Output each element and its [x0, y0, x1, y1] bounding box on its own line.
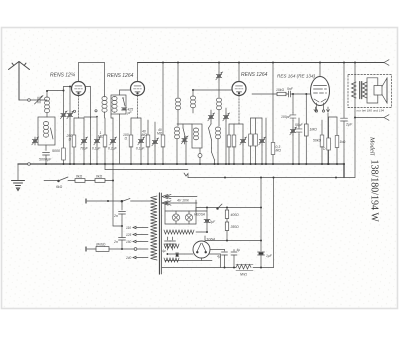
AVC line upper [104, 164, 106, 170]
trimmer 70pF [83, 118, 85, 137]
coupling network wire [252, 93, 277, 95]
resistor 400ohm [226, 208, 228, 211]
wire V1 cathode [78, 96, 80, 119]
wire V1 screen side [86, 87, 91, 119]
resistor 100ohm x131 [130, 118, 132, 136]
svg-text:70pF: 70pF [80, 147, 89, 151]
pickup switch [58, 177, 68, 181]
output tube top cap wire [319, 63, 321, 77]
svg-text:RES 164 (RE 134): RES 164 (RE 134) [277, 74, 316, 79]
coupling cap 5nF [286, 91, 293, 97]
resistor column x61 [62, 148, 66, 160]
svg-text:2μF: 2μF [345, 123, 353, 127]
svg-text:2n: 2n [113, 240, 118, 244]
band coil L2 [43, 122, 48, 138]
detector resistor x255.5 [255, 118, 257, 134]
wire [104, 113, 106, 119]
cap x262 [261, 118, 263, 137]
cap x155 [154, 122, 156, 138]
speaker return vertical [354, 63, 356, 178]
bias switch [217, 204, 222, 209]
svg-text:4μ: 4μ [162, 249, 166, 253]
grid trimmer V3 [216, 72, 223, 80]
antenna [9, 62, 30, 101]
wire to output grid [293, 93, 311, 95]
cap 2uF [343, 63, 345, 119]
svg-text:0kΩ: 0kΩ [96, 175, 103, 179]
svg-text:4V 10%: 4V 10% [177, 199, 189, 203]
V3 tube RENS1264 [232, 82, 246, 96]
svg-text:RENS 1264: RENS 1264 [107, 73, 134, 79]
svg-text:138/180/194 W: 138/180/194 W [369, 160, 380, 223]
band coil box [192, 124, 202, 148]
resistor 1M vertical [305, 94, 307, 124]
tuning gang C1 [60, 111, 67, 119]
wire drop padder [69, 87, 71, 112]
transformer core [359, 82, 361, 99]
V2 tube RENS1264 [131, 82, 145, 96]
svg-text:Modell: Modell [369, 136, 376, 156]
svg-text:125: 125 [126, 233, 132, 237]
line cap lower [119, 238, 126, 241]
svg-text:1μF: 1μF [266, 254, 273, 258]
speaker cone [382, 78, 387, 103]
bias return wire [205, 240, 261, 242]
bias resistor leg [329, 116, 337, 118]
transformer core lines [159, 193, 161, 274]
resistor 10k horizontal second [95, 179, 105, 183]
power transformer primary winding [151, 196, 158, 260]
wire V2 plate top to bus [137, 63, 139, 82]
speaker terminal arrow lower [384, 115, 389, 121]
wire V2 grid [120, 90, 131, 95]
svg-text:240: 240 [125, 256, 132, 260]
resistor 10k horizontal [75, 179, 85, 183]
detector load resistor x250.5 [250, 118, 252, 134]
bias network wire [196, 207, 261, 209]
wire box to cap [45, 145, 47, 151]
ground lead [17, 164, 19, 180]
band coil inside box [112, 97, 117, 113]
wire [30, 99, 35, 101]
svg-text:0,1μF: 0,1μF [136, 147, 145, 151]
resistor 0,3M x273 [272, 63, 274, 143]
chassis bus [18, 164, 344, 178]
wire coil top to grid line [46, 91, 48, 97]
HT bottom rail [162, 267, 236, 269]
antenna coil L1 [44, 97, 49, 113]
dial lamp 2 [185, 214, 192, 221]
wire V1 grid [64, 86, 72, 88]
wire antenna lead [19, 99, 28, 101]
ground symbol [12, 181, 25, 191]
svg-text:0kΩ: 0kΩ [76, 175, 83, 179]
filter cap 4uF a [224, 250, 226, 252]
IF coil primary [102, 97, 107, 113]
model label vertical [369, 136, 380, 222]
svg-text:MΩ: MΩ [142, 133, 148, 137]
svg-text:110: 110 [126, 226, 131, 230]
resistor 50k x322 [321, 120, 323, 136]
screen feed vertical x163 [162, 63, 164, 136]
top HT bus [138, 62, 385, 64]
IF2 band coil [174, 127, 179, 139]
cathode cap 5000pF [43, 153, 50, 165]
grid terminal circle [95, 110, 97, 112]
secondary 4V winding [162, 194, 197, 198]
cap x243 [242, 124, 244, 137]
AVC jog [184, 173, 188, 178]
cap 0,1uF x97 [96, 117, 98, 137]
IF2 switch [183, 128, 186, 140]
svg-text:Ω: Ω [69, 138, 72, 142]
HT feed vertical [273, 178, 275, 268]
mains lead 2 [87, 248, 96, 250]
cathode resistor leg [328, 117, 330, 138]
V1 tube RENS1214 [72, 82, 86, 96]
band switch box [38, 117, 55, 145]
IF transformer 2 primary coil [177, 63, 179, 98]
cap x141 [140, 118, 142, 137]
smoothing cap 1uF [260, 178, 262, 252]
padder trimmer [67, 111, 74, 119]
svg-text:MΩ: MΩ [98, 135, 104, 139]
output transformer secondary winding [363, 82, 368, 98]
svg-text:50kΩ: 50kΩ [313, 139, 321, 143]
wire [73, 147, 75, 164]
rectifier output wire [210, 249, 225, 251]
dial lamp 1 [172, 214, 179, 221]
resistor x234 [233, 124, 235, 136]
resistor 350ohm [225, 222, 228, 231]
trimmer x293 [290, 127, 297, 135]
resistor 0,4M x148 [147, 120, 149, 136]
fuse resistor [96, 247, 109, 252]
wave trap trimmer [32, 137, 39, 145]
speaker loop wires [367, 78, 378, 86]
grid wire to V1 [47, 90, 64, 92]
grid leak vertical x293 [292, 94, 294, 113]
svg-text:400Ω: 400Ω [231, 213, 240, 217]
svg-text:5000: 5000 [52, 149, 60, 153]
resistor 1M x105 [104, 95, 106, 97]
V2 grid box [111, 95, 126, 114]
wire V2 cathode [137, 96, 139, 119]
svg-text:RENS 1264: RENS 1264 [241, 72, 268, 78]
pickup line [44, 180, 58, 182]
svg-text:HEDSA: HEDSA [194, 213, 205, 217]
line cap upper [121, 201, 123, 210]
svg-text:150: 150 [126, 240, 132, 244]
rectifier tube 1064 [193, 241, 210, 258]
heater winding 4V output [164, 230, 194, 234]
IF trimmer [181, 136, 188, 144]
svg-text:4μ: 4μ [237, 248, 241, 252]
cap at winding [176, 253, 179, 257]
cap 425pF [122, 108, 127, 110]
svg-text:0,1μF: 0,1μF [108, 147, 118, 151]
antenna series trimmer C [35, 96, 48, 105]
wire V3 cathode [238, 96, 240, 125]
svg-text:2n: 2n [113, 214, 118, 218]
svg-text:1kΩ: 1kΩ [340, 140, 346, 144]
output tube RES164 [311, 77, 330, 113]
svg-text:1MΩ: 1MΩ [310, 128, 318, 132]
filter cap 4uF b [233, 250, 235, 252]
switch x206 [209, 128, 212, 140]
screen wire column x91 [90, 117, 92, 164]
svg-text:(Wdst): (Wdst) [96, 243, 105, 247]
coil x193 [190, 96, 195, 108]
svg-text:5000pF: 5000pF [39, 158, 52, 162]
variable core circle [198, 154, 202, 158]
lamp cap [206, 208, 208, 220]
wire x266 [265, 118, 267, 164]
heater pin arrows [314, 107, 317, 112]
wire coil to band box [46, 113, 48, 117]
earth terminal [28, 163, 31, 166]
HT winding [164, 258, 179, 262]
svg-text:6kΩ: 6kΩ [56, 185, 63, 189]
trimmer x211 [210, 110, 212, 113]
grid resistor 10k horizontal [277, 92, 286, 95]
HT terminal arrow [384, 60, 389, 66]
tap selector circle [134, 248, 137, 251]
box bottom leads [111, 114, 113, 118]
cap 0,1uF x113 [112, 118, 114, 137]
Junction dots [45, 163, 47, 165]
svg-text:RENS 12¼: RENS 12¼ [50, 73, 75, 79]
speaker voice coil [374, 86, 382, 96]
grid line V3 [193, 89, 232, 91]
cathode network top link [74, 117, 84, 119]
svg-text:NW1: NW1 [240, 273, 247, 277]
wire drop tuning C1 [63, 87, 65, 112]
resistor 250ohm [72, 135, 76, 147]
svg-text:10kΩ: 10kΩ [276, 88, 284, 92]
switch in box [123, 98, 125, 106]
svg-text:100pF: 100pF [281, 115, 292, 119]
rectifier wires [169, 253, 193, 255]
mains switch [122, 199, 131, 202]
svg-text:Ω: Ω [125, 137, 128, 141]
field resistor NW1 [236, 265, 251, 270]
wire [69, 119, 71, 164]
speaker dashed box [348, 75, 392, 108]
coil x218 [218, 63, 220, 73]
resistor x229 [228, 124, 230, 136]
svg-text:1064: 1064 [206, 237, 216, 242]
svg-text:50pF: 50pF [295, 123, 304, 127]
output transformer primary winding [352, 82, 357, 98]
band switch contact [51, 128, 54, 139]
wire V1 plate top [79, 63, 105, 96]
cap 100pF [290, 113, 296, 121]
rectifier heater winding [164, 244, 179, 248]
switch lower [212, 152, 215, 160]
svg-text:nur bei 180 und 194: nur bei 180 und 194 [357, 109, 385, 113]
volume pot vertical [112, 164, 114, 226]
AVC line lower [188, 177, 355, 179]
cap 50pF x299 [298, 118, 300, 127]
svg-text:5nF: 5nF [287, 87, 294, 91]
trimmer x226 [225, 108, 227, 113]
svg-text:2μF: 2μF [209, 220, 217, 224]
rectifier smoothing caps [167, 237, 169, 240]
wire [63, 119, 65, 148]
svg-text:0,1μF: 0,1μF [92, 147, 101, 151]
antenna terminal [28, 99, 31, 102]
svg-text:350Ω: 350Ω [231, 225, 240, 229]
wire V3 plate [238, 63, 240, 82]
mains lead [87, 200, 122, 202]
svg-text:4μ: 4μ [217, 255, 221, 259]
lamp circuit wires [164, 202, 166, 224]
svg-text:MΩ: MΩ [276, 149, 282, 153]
